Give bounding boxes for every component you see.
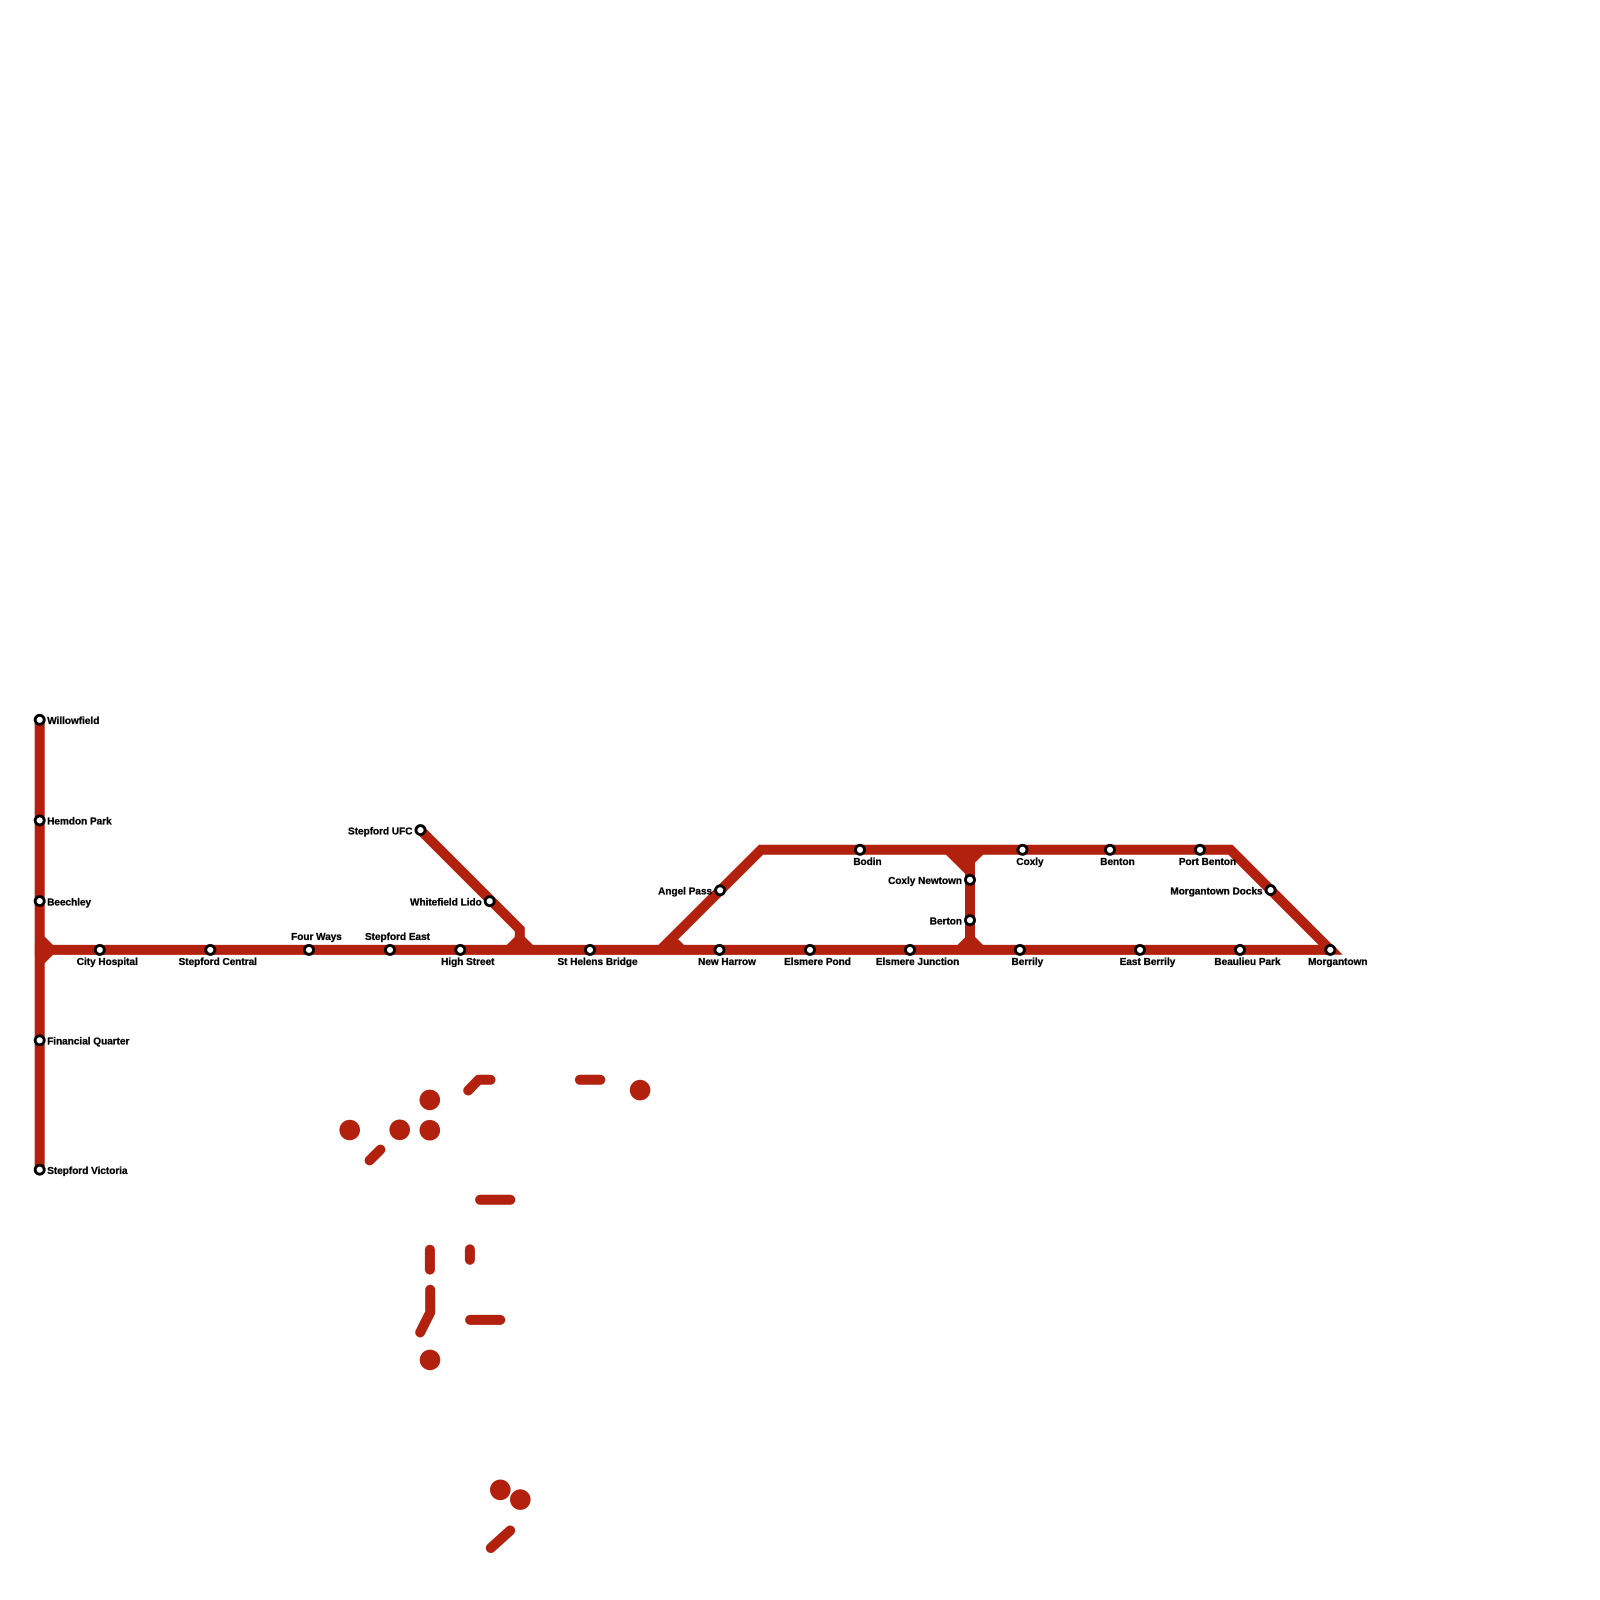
- svg-text:Beechley: Beechley: [47, 897, 91, 908]
- svg-text:Elsmere Pond: Elsmere Pond: [784, 957, 851, 968]
- svg-text:Morgantown Docks: Morgantown Docks: [1170, 886, 1263, 897]
- svg-text:Stepford Victoria: Stepford Victoria: [47, 1166, 128, 1177]
- svg-text:Benton: Benton: [1100, 857, 1134, 868]
- svg-text:Hemdon Park: Hemdon Park: [47, 817, 112, 828]
- svg-text:Stepford Central: Stepford Central: [179, 957, 258, 968]
- svg-text:Stepford East: Stepford East: [365, 932, 431, 943]
- svg-text:Port Benton: Port Benton: [1179, 857, 1236, 868]
- svg-text:High Street: High Street: [441, 957, 495, 968]
- svg-text:Berrily: Berrily: [1012, 957, 1044, 968]
- svg-text:St Helens Bridge: St Helens Bridge: [557, 957, 637, 968]
- svg-text:New Harrow: New Harrow: [698, 957, 756, 968]
- svg-text:Willowfield: Willowfield: [47, 716, 99, 727]
- svg-text:Coxly: Coxly: [1016, 857, 1044, 868]
- svg-text:Stepford UFC: Stepford UFC: [348, 826, 412, 837]
- svg-text:Four Ways: Four Ways: [291, 932, 342, 943]
- svg-text:East Berrily: East Berrily: [1120, 957, 1176, 968]
- svg-text:Bodin: Bodin: [853, 857, 881, 868]
- svg-text:Berton: Berton: [930, 916, 962, 927]
- svg-text:Whitefield Lido: Whitefield Lido: [410, 897, 482, 908]
- svg-text:Morgantown: Morgantown: [1308, 957, 1367, 968]
- svg-text:Angel Pass: Angel Pass: [658, 887, 712, 898]
- svg-text:City Hospital: City Hospital: [77, 957, 138, 968]
- svg-text:Beaulieu Park: Beaulieu Park: [1214, 957, 1281, 968]
- svg-text:Coxly Newtown: Coxly Newtown: [888, 876, 962, 887]
- svg-text:Financial Quarter: Financial Quarter: [47, 1037, 129, 1048]
- svg-text:Elsmere Junction: Elsmere Junction: [876, 957, 959, 968]
